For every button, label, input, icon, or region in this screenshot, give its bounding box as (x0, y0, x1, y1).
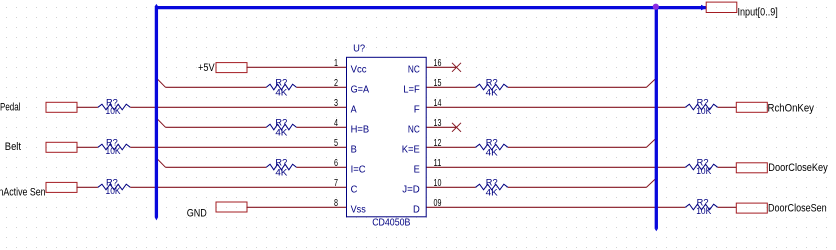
svg-text:nActive Sen: nActive Sen (0, 186, 46, 198)
svg-text:RchOnKey: RchOnKey (768, 103, 815, 115)
resistor R? 10K (Pedal) (98, 97, 130, 116)
bus entry pin 4 (157, 119, 166, 128)
svg-text:DoorCloseKey: DoorCloseKey (768, 162, 828, 174)
svg-text:L=F: L=F (403, 83, 420, 95)
bus entry pin 2 (157, 79, 166, 88)
svg-text:R?: R? (486, 77, 498, 87)
resistor R? 10K (nActiveSen) (98, 177, 130, 196)
svg-text:NC: NC (408, 63, 420, 75)
svg-text:3: 3 (334, 97, 338, 109)
svg-text:4K: 4K (275, 87, 287, 97)
svg-text:2: 2 (334, 77, 338, 89)
port DoorCloseKey (736, 162, 828, 174)
svg-text:13: 13 (434, 117, 442, 129)
svg-text:Vcc: Vcc (351, 63, 367, 75)
svg-text:15: 15 (434, 77, 442, 89)
svg-text:10K: 10K (696, 206, 711, 216)
wire Pedal to R 10K (77, 106, 98, 108)
wire R 4K to bus entry (508, 86, 647, 88)
wire R 10K to pin 3 (130, 106, 346, 108)
svg-text:4: 4 (334, 117, 338, 129)
svg-text:E: E (414, 163, 420, 175)
wire bus entry to R 4K (166, 166, 267, 168)
wire R 10K to DoorCloseSen port (718, 206, 736, 208)
wire R 4K to pin 2 (296, 86, 346, 88)
pin 16 stub (NC) (426, 66, 456, 68)
port RchOnKey (736, 102, 814, 114)
IC U? CD4050B body (347, 42, 427, 228)
svg-text:10K: 10K (106, 186, 121, 196)
svg-text:14: 14 (434, 97, 442, 109)
wire pin 14 F net (426, 106, 685, 108)
bus entry pin 15 (647, 79, 656, 87)
svg-text:6: 6 (334, 157, 338, 169)
power port +5V (198, 62, 247, 74)
wire pin 9 D net (426, 206, 685, 208)
svg-text:R?: R? (486, 177, 498, 187)
bus junction (653, 4, 659, 10)
svg-text:DoorCloseSen: DoorCloseSen (768, 202, 827, 214)
resistor R? 4K (pin 2) (266, 77, 296, 97)
resistor R? 10K (RchOnKey) (685, 97, 717, 116)
svg-text:NC: NC (408, 123, 420, 135)
svg-text:R?: R? (275, 117, 287, 127)
pin 13 stub (NC) (426, 126, 456, 128)
wire +5V to pin 1 (247, 66, 347, 68)
no-ERC cross pin 13 (452, 123, 461, 132)
resistor R? 4K (pin 15) (476, 77, 508, 97)
svg-text:R?: R? (275, 157, 287, 167)
svg-text:J=D: J=D (402, 183, 420, 195)
svg-text:+5V: +5V (198, 62, 215, 74)
svg-text:12: 12 (434, 137, 442, 149)
wire R 4K to bus entry (508, 186, 647, 188)
wire bus entry to R 4K (166, 126, 267, 128)
wire R 4K to pin 6 (296, 166, 346, 168)
svg-text:GND: GND (187, 208, 207, 220)
svg-text:B: B (351, 143, 357, 155)
bus left vertical end tip (155, 217, 158, 220)
svg-text:4K: 4K (486, 147, 498, 157)
svg-text:4K: 4K (275, 167, 287, 177)
svg-text:A: A (351, 103, 357, 115)
port Input[0..9] (706, 2, 778, 18)
resistor R? 4K (pin 10) (476, 177, 508, 197)
power port GND (187, 202, 247, 220)
svg-text:Input[0..9]: Input[0..9] (738, 6, 778, 18)
no-ERC cross pin 16 (452, 63, 461, 72)
bus right vertical end tip (655, 229, 658, 232)
svg-text:4K: 4K (486, 187, 498, 197)
svg-text:CD4050B: CD4050B (372, 217, 410, 229)
svg-text:10K: 10K (106, 106, 121, 116)
svg-text:I=C: I=C (351, 163, 366, 175)
bus entry pin 12 (647, 139, 656, 147)
svg-text:10K: 10K (696, 166, 711, 176)
svg-text:R?: R? (486, 137, 498, 147)
bus entry pin 6 (157, 159, 166, 168)
svg-text:7: 7 (334, 177, 338, 189)
port Pedal (0, 102, 77, 114)
wire pin 12 to R 4K (426, 146, 475, 148)
bus entry pin 10 (647, 179, 656, 187)
svg-text:Vss: Vss (351, 203, 366, 215)
svg-text:16: 16 (434, 57, 442, 69)
wire pin 15 to R 4K (426, 86, 475, 88)
svg-text:C: C (351, 183, 358, 195)
bus right vertical (655, 6, 658, 229)
svg-text:4K: 4K (275, 127, 287, 137)
wire R 10K to DoorCloseKey port (718, 166, 736, 168)
svg-text:Pedal: Pedal (0, 102, 21, 114)
bus left vertical (155, 6, 158, 218)
svg-text:1: 1 (334, 57, 338, 69)
svg-text:Belt: Belt (5, 141, 21, 153)
svg-text:4K: 4K (486, 87, 498, 97)
svg-text:K=E: K=E (402, 143, 420, 155)
wire R 4K to pin 4 (296, 126, 346, 128)
svg-text:09: 09 (434, 197, 442, 209)
svg-text:8: 8 (334, 197, 338, 209)
port DoorCloseSen (736, 202, 826, 214)
resistor R? 10K (Belt) (98, 137, 130, 156)
wire R 10K to RchOnKey port (718, 106, 736, 108)
svg-text:D: D (413, 203, 420, 215)
wire nActiveSen to R 10K (77, 186, 98, 188)
resistor R? 4K (pin 4) (266, 117, 296, 137)
svg-text:5: 5 (334, 137, 338, 149)
resistor R? 10K (DoorCloseSen) (685, 197, 717, 216)
bus arrow into Input port (701, 5, 707, 11)
wire GND to pin 8 (247, 206, 347, 208)
bus left vertical top tip (155, 4, 158, 6)
resistor R? 4K (pin 6) (266, 157, 296, 177)
svg-text:G=A: G=A (351, 83, 370, 95)
wire R 10K to pin 5 (130, 146, 346, 148)
wire R 10K to pin 7 (130, 186, 346, 188)
port nActiveSen (0, 182, 77, 198)
svg-text:10: 10 (434, 177, 442, 189)
wire Belt to R 10K (77, 146, 98, 148)
wire bus entry to R 4K (166, 86, 267, 88)
port Belt (5, 141, 77, 153)
svg-text:U?: U? (353, 42, 365, 54)
resistor R? 4K (pin 12) (476, 137, 508, 157)
resistor R? 10K (DoorCloseKey) (685, 157, 717, 176)
svg-text:H=B: H=B (351, 123, 370, 135)
wire pin 11 E net (426, 166, 685, 168)
svg-text:11: 11 (434, 157, 442, 169)
svg-text:10K: 10K (106, 146, 121, 156)
svg-text:10K: 10K (696, 106, 711, 116)
bus top horizontal (155, 6, 707, 9)
svg-text:R?: R? (275, 77, 287, 87)
svg-text:F: F (414, 103, 420, 115)
wire pin 10 to R 4K (426, 186, 475, 188)
wire R 4K to bus entry (508, 146, 647, 148)
